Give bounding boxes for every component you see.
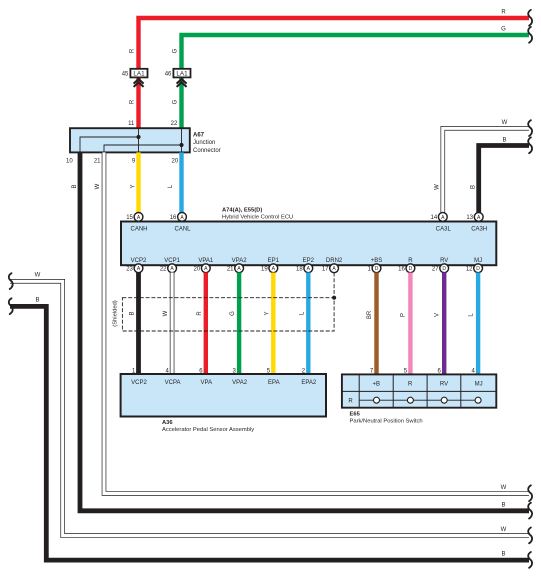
svg-text:18: 18 (296, 267, 303, 273)
svg-text:EP2: EP2 (303, 258, 315, 264)
pin 17 DRN2 of ECU (322, 258, 343, 273)
break symbol wire W bottom1 (528, 485, 532, 501)
svg-text:VPA2: VPA2 (232, 380, 248, 386)
svg-text:13: 13 (466, 215, 473, 221)
switch contact at x=376.5 (374, 397, 380, 403)
svg-text:BR: BR (367, 310, 373, 319)
switch contact at x=410.4 (407, 397, 413, 403)
switch contact at x=444.2 (441, 397, 447, 403)
wire G (green, ECU VPA2 to A36 pin3) (237, 273, 241, 375)
svg-text:23: 23 (126, 267, 133, 273)
svg-text:B: B (502, 137, 506, 143)
svg-text:15: 15 (126, 215, 133, 221)
svg-text:Park/Neutral Position Switch: Park/Neutral Position Switch (350, 419, 423, 425)
svg-text:Junction: Junction (193, 140, 215, 146)
svg-text:R: R (129, 48, 135, 53)
svg-text:14: 14 (431, 215, 438, 221)
svg-text:CANL: CANL (174, 227, 191, 233)
svg-text:VCP2: VCP2 (131, 258, 147, 264)
svg-text:CANH: CANH (130, 227, 147, 233)
svg-text:W: W (434, 184, 440, 190)
wire B (black, from page left to bottom right) (10, 306, 529, 560)
svg-text:19: 19 (261, 267, 268, 273)
svg-text:D: D (476, 266, 480, 272)
pin 1 VCP2 of A36 (131, 368, 147, 386)
svg-text:16: 16 (398, 267, 405, 273)
wire B (black, A67 pin10 to bottom right) (80, 152, 529, 510)
svg-text:21: 21 (94, 159, 101, 165)
svg-text:Accelerator Pedal Sensor Assem: Accelerator Pedal Sensor Assembly (162, 427, 254, 433)
break symbol wire W left (9, 273, 13, 289)
wire shield drain DRN2 (dashed) (333, 273, 335, 298)
junction connector A67 box (70, 128, 190, 152)
svg-text:A67: A67 (193, 133, 205, 139)
A67 internal wire pin22-pin20-pin21 (104, 128, 182, 152)
pin 22 VCP1 of ECU (160, 258, 181, 273)
switch contact at x=478.1 (475, 397, 481, 403)
svg-text:20: 20 (172, 159, 179, 165)
pin 21 VPA2 of ECU (227, 258, 247, 273)
wire R (red, HV ECU CANH circuit to page right) (139, 18, 530, 130)
svg-text:W: W (502, 120, 508, 126)
svg-text:B: B (130, 311, 136, 315)
svg-text:CA3H: CA3H (471, 227, 487, 233)
svg-text:RV: RV (440, 258, 448, 264)
svg-text:16: 16 (170, 215, 177, 221)
svg-text:LA1: LA1 (133, 71, 145, 78)
svg-text:W: W (163, 310, 169, 316)
wire L (blue, A67 pin20 to ECU CANL) (179, 152, 183, 213)
svg-text:P: P (401, 313, 407, 317)
pin 5 EPA of A36 (267, 368, 280, 386)
svg-text:21: 21 (227, 267, 234, 273)
svg-text:B: B (471, 185, 477, 189)
svg-text:LA1: LA1 (176, 71, 188, 78)
svg-text:DRN2: DRN2 (326, 258, 343, 264)
junction dot A67 pin 11 (136, 135, 140, 139)
svg-text:VCP1: VCP1 (164, 258, 180, 264)
svg-text:EPA: EPA (268, 380, 280, 386)
svg-text:D: D (409, 266, 413, 272)
svg-text:20: 20 (194, 267, 201, 273)
shield box (dashed) around pedal sensor wires (122, 298, 334, 331)
pin 1 +BS of ECU (368, 258, 383, 273)
svg-text:+B: +B (373, 382, 381, 388)
svg-text:RV: RV (440, 382, 448, 388)
svg-text:VCPA: VCPA (165, 380, 181, 386)
svg-text:G: G (501, 27, 506, 33)
pin 14 CA3L of ECU (431, 213, 452, 233)
break symbol wire W topright (528, 120, 532, 136)
wire Y (yellow, A67 pin9 to ECU CANH) (136, 152, 140, 213)
pin 6 RV of E65 (438, 368, 449, 387)
svg-text:12: 12 (466, 267, 473, 273)
wire V (violet, ECU RV to E65 pin6) (442, 273, 446, 375)
svg-text:R: R (197, 311, 203, 316)
svg-text:VPA1: VPA1 (198, 258, 214, 264)
break symbol wire R right (528, 10, 532, 26)
svg-text:11: 11 (128, 121, 135, 127)
svg-text:+BS: +BS (371, 258, 383, 264)
svg-text:Connector: Connector (193, 148, 221, 154)
op ECU box A74(A) E55(D) (121, 222, 496, 266)
svg-text:Hybrid Vehicle Control ECU: Hybrid Vehicle Control ECU (222, 214, 293, 220)
svg-text:G: G (172, 48, 178, 53)
svg-text:B: B (501, 552, 505, 558)
break symbol wire B left (9, 298, 13, 314)
pin 6 VPA of A36 (199, 368, 212, 386)
pin 27 RV of ECU (432, 258, 449, 273)
component A36 Accelerator Pedal Sensor Assembly box (121, 374, 326, 417)
svg-text:VCP2: VCP2 (131, 380, 147, 386)
break symbol wire G right (528, 27, 532, 43)
E65 internal grid lines (342, 374, 496, 407)
pin 23 VCP2 of ECU (126, 258, 147, 273)
component E65 Park/Neutral Position Switch box (342, 374, 496, 407)
svg-text:MJ: MJ (474, 258, 482, 264)
svg-text:VPA: VPA (201, 380, 213, 386)
svg-text:VPA2: VPA2 (232, 258, 248, 264)
pin 5 R of E65 (404, 368, 413, 387)
svg-text:45: 45 (122, 72, 129, 78)
connector LA1 pin 45 (122, 69, 148, 78)
svg-text:G: G (230, 311, 236, 316)
wire W (white, ECU VCP1 to A36 pin4) (170, 273, 175, 375)
svg-text:Y: Y (130, 184, 136, 188)
svg-text:22: 22 (160, 267, 167, 273)
chevron symbol below LA1-46 (177, 79, 187, 87)
svg-text:R: R (408, 258, 413, 264)
pin 18 EP2 of ECU (296, 258, 315, 273)
wire L (blue, ECU EP2 to A36 pin2) (306, 273, 310, 375)
svg-text:D: D (442, 266, 446, 272)
break symbol wire B bottom2 (528, 552, 532, 568)
junction dot A67 pin 22 (179, 143, 183, 147)
svg-text:E65: E65 (350, 412, 361, 418)
wire P (pink, ECU R to E65 pin5) (408, 273, 412, 375)
svg-text:B: B (501, 502, 505, 508)
svg-text:A36: A36 (162, 420, 173, 426)
wire W (white, page right to ECU CA3L) (443, 128, 529, 213)
wire L (blue, ECU MJ to E65 pin4) (476, 273, 480, 375)
wire B (black, page right to ECU CA3H) (479, 146, 529, 214)
svg-text:W: W (95, 183, 101, 189)
pin 16 R of ECU (398, 258, 415, 273)
break symbol wire B bottom1 (528, 503, 532, 519)
svg-text:27: 27 (432, 267, 439, 273)
wire B (black, ECU VCP2 to A36 pin1) (136, 273, 141, 375)
pin 13 CA3H of ECU (466, 213, 487, 233)
E65 switch contact line (359, 399, 478, 401)
svg-text:B: B (72, 184, 78, 188)
pin 7 +B of E65 (370, 368, 380, 387)
svg-text:22: 22 (171, 121, 178, 127)
break symbol wire W bottom2 (528, 528, 532, 544)
junction dot shield to DRN2 (332, 296, 336, 300)
wire BR (brown, ECU +BS to E65 pin7) (374, 273, 378, 375)
svg-text:V: V (435, 313, 441, 317)
pin 15 CANH of ECU (126, 213, 147, 233)
svg-text:R: R (129, 99, 135, 104)
svg-text:G: G (172, 99, 178, 104)
connector LA1 pin 46 (165, 69, 191, 78)
svg-text:R: R (348, 398, 353, 404)
svg-text:R: R (501, 10, 506, 16)
svg-text:MJ: MJ (475, 382, 483, 388)
A67 internal wire pin11-pin9-pin10 (80, 128, 139, 152)
pin 3 VPA2 of A36 (232, 368, 248, 386)
svg-text:D: D (375, 266, 379, 272)
pin 16 CANL of ECU (170, 213, 191, 233)
wire R (red, ECU VPA1 to A36 pin6) (204, 273, 208, 375)
pin 12 MJ of ECU (466, 258, 483, 273)
svg-text:(Shielded): (Shielded) (112, 300, 118, 326)
svg-text:Y: Y (264, 311, 270, 315)
chevron symbol below LA1-45 (134, 79, 144, 87)
wire G (green, CANL circuit to page right) (182, 35, 530, 130)
svg-text:B: B (35, 297, 39, 303)
svg-text:10: 10 (66, 159, 73, 165)
wire W (white, A67 pin21 to bottom right) (104, 152, 529, 493)
svg-text:17: 17 (322, 267, 329, 273)
break symbol wire B topright (528, 137, 532, 153)
wire W (white, from page left to bottom right) (10, 281, 529, 535)
pin 4 VCPA of A36 (165, 368, 181, 386)
svg-text:EPA2: EPA2 (301, 380, 317, 386)
svg-text:W: W (501, 527, 507, 533)
pin 19 EP1 of ECU (261, 258, 280, 273)
svg-text:EP1: EP1 (268, 258, 280, 264)
svg-text:A74(A), E55(D): A74(A), E55(D) (222, 208, 262, 214)
svg-text:R: R (408, 382, 413, 388)
pin 4 MJ of E65 (471, 368, 482, 387)
svg-text:W: W (35, 273, 41, 279)
wire Y (yellow, ECU EP1 to A36 pin5) (271, 273, 275, 375)
svg-text:46: 46 (165, 72, 172, 78)
svg-text:W: W (501, 485, 507, 491)
pin 2 EPA2 of A36 (301, 368, 317, 386)
pin 20 VPA1 of ECU (194, 258, 214, 273)
svg-text:CA3L: CA3L (436, 227, 452, 233)
